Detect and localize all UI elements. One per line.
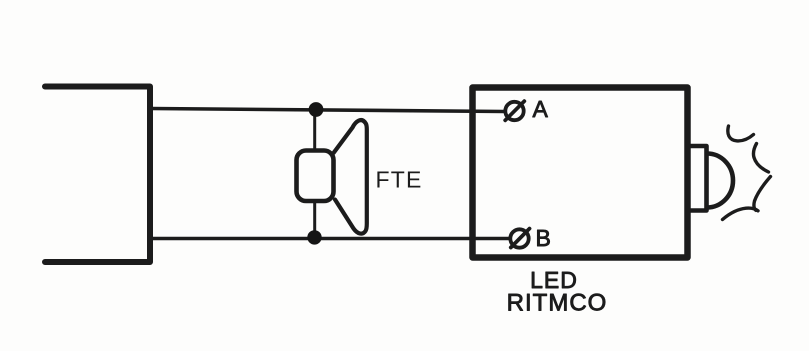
terminal B slash: [511, 229, 530, 248]
wire speaker vertical: [313, 109, 316, 238]
wire top: amplifier to terminal A: [151, 109, 504, 112]
svg-text:A: A: [533, 96, 549, 122]
svg-text:FTE: FTE: [376, 167, 423, 193]
svg-text:RITMCO: RITMCO: [507, 290, 608, 317]
terminal A screw circle: [505, 102, 523, 120]
amplifier output box (left, open-left): [45, 87, 150, 263]
flash ray top: [728, 126, 754, 141]
svg-text:B: B: [536, 225, 551, 251]
flash ray right: [754, 177, 771, 211]
terminal A slash: [505, 101, 524, 120]
flash ray upper-right: [753, 144, 768, 173]
speaker FTE driver (rounded square): [297, 151, 334, 202]
speaker FTE cone: [334, 120, 367, 234]
LED module box: [473, 88, 688, 258]
LED lamp base rectangle: [687, 146, 707, 211]
flash ray bottom: [723, 208, 759, 219]
node junction top: [309, 102, 324, 117]
wire bottom: amplifier to terminal B: [151, 237, 508, 241]
node junction bottom: [307, 230, 321, 244]
terminal B screw circle: [510, 229, 528, 247]
LED lamp dome lens: [707, 154, 733, 208]
